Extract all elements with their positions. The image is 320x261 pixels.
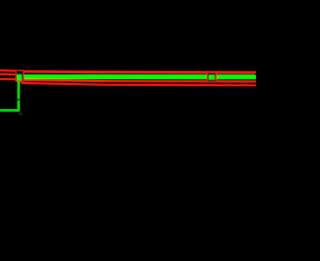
via V1 outline (right via): [207, 72, 216, 81]
pad P1 green core: [17, 75, 22, 81]
pad P1 outline (left via): [16, 70, 24, 81]
wire: left F.Cu trace 1: [0, 69, 17, 72]
wire: top F.Cu trace across: [16, 71, 256, 72]
wire: F.Cu trace below bus (lower of pair): [21, 83, 256, 85]
wire: left F.Cu trace 2: [0, 73, 17, 75]
faint label smudge near corner: [18, 112, 22, 115]
wire: left F.Cu trace 3: [0, 78, 17, 80]
via V1 green core: [209, 75, 215, 80]
wire: F.Cu trace below bus (upper of pair): [19, 80, 256, 82]
wire: B.Cu vertical trace from pad: [17, 79, 20, 110]
wire: B.Cu green bus trace: [18, 75, 256, 80]
wire: B.Cu horizontal trace to left edge: [0, 109, 19, 112]
junction notch on vertical trace: [17, 99, 20, 101]
